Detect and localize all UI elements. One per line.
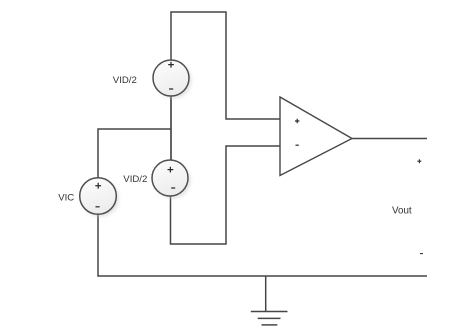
wire: VID/2 (bottom) to op-amp inverting input [171,146,281,244]
wire: top loop from VID/2 (top) plus terminal to op-amp non-inverting input [171,12,280,119]
voltage source VID/2 (top) [153,60,192,99]
svg-text:VID/2: VID/2 [113,75,137,86]
wire: bottom rail [97,275,427,277]
svg-text:Vout: Vout [392,206,412,217]
wire: VIC bottom to bottom rail [97,214,99,276]
voltage source VIC [80,178,119,217]
label + (output polarity) [417,159,421,163]
op-amp U1 [280,97,352,176]
wire: ground stub [265,276,267,312]
label - (output polarity) [420,253,423,255]
svg-text:VIC: VIC [58,193,74,204]
voltage source VID/2 (bottom) [152,160,191,199]
svg-text:VID/2: VID/2 [123,174,147,185]
wire: between VID/2 (top) bottom and VID/2 (bottom) top [170,96,172,161]
wire: op-amp output [352,138,427,140]
wire: branch from inter-source node to VIC top [98,129,171,178]
ground [251,312,288,325]
